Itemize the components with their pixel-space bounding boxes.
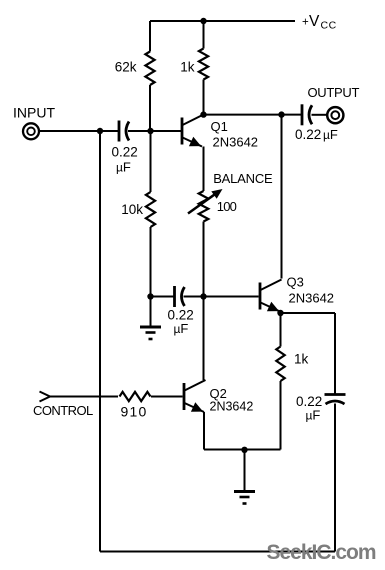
svg-text:2N3642: 2N3642 — [289, 291, 335, 306]
svg-text:µF: µF — [116, 160, 131, 175]
svg-text:10k: 10k — [121, 202, 143, 217]
svg-text:CC: CC — [321, 20, 337, 32]
svg-text:INPUT: INPUT — [13, 104, 55, 120]
svg-text:Q1: Q1 — [211, 119, 228, 134]
svg-text:OUTPUT: OUTPUT — [308, 85, 360, 100]
svg-text:62k: 62k — [115, 60, 137, 75]
svg-text:Q3: Q3 — [287, 275, 304, 290]
svg-text:CONTROL: CONTROL — [33, 403, 93, 418]
svg-text:SeekIC.com: SeekIC.com — [267, 541, 376, 564]
svg-text:0.22: 0.22 — [112, 144, 138, 159]
svg-text:2N3642: 2N3642 — [213, 134, 259, 149]
svg-text:V: V — [309, 13, 320, 30]
svg-text:0.22: 0.22 — [295, 127, 321, 142]
svg-text:2N3642: 2N3642 — [210, 400, 254, 414]
svg-text:1k: 1k — [180, 60, 195, 75]
svg-text:BALANCE: BALANCE — [213, 171, 273, 186]
svg-text:µF: µF — [306, 408, 321, 423]
svg-text:100: 100 — [217, 199, 237, 214]
svg-text:µF: µF — [323, 127, 338, 142]
svg-text:1k: 1k — [294, 351, 309, 366]
svg-text:+: + — [302, 17, 309, 29]
svg-text:µF: µF — [174, 321, 189, 336]
svg-text:910: 910 — [121, 403, 148, 419]
